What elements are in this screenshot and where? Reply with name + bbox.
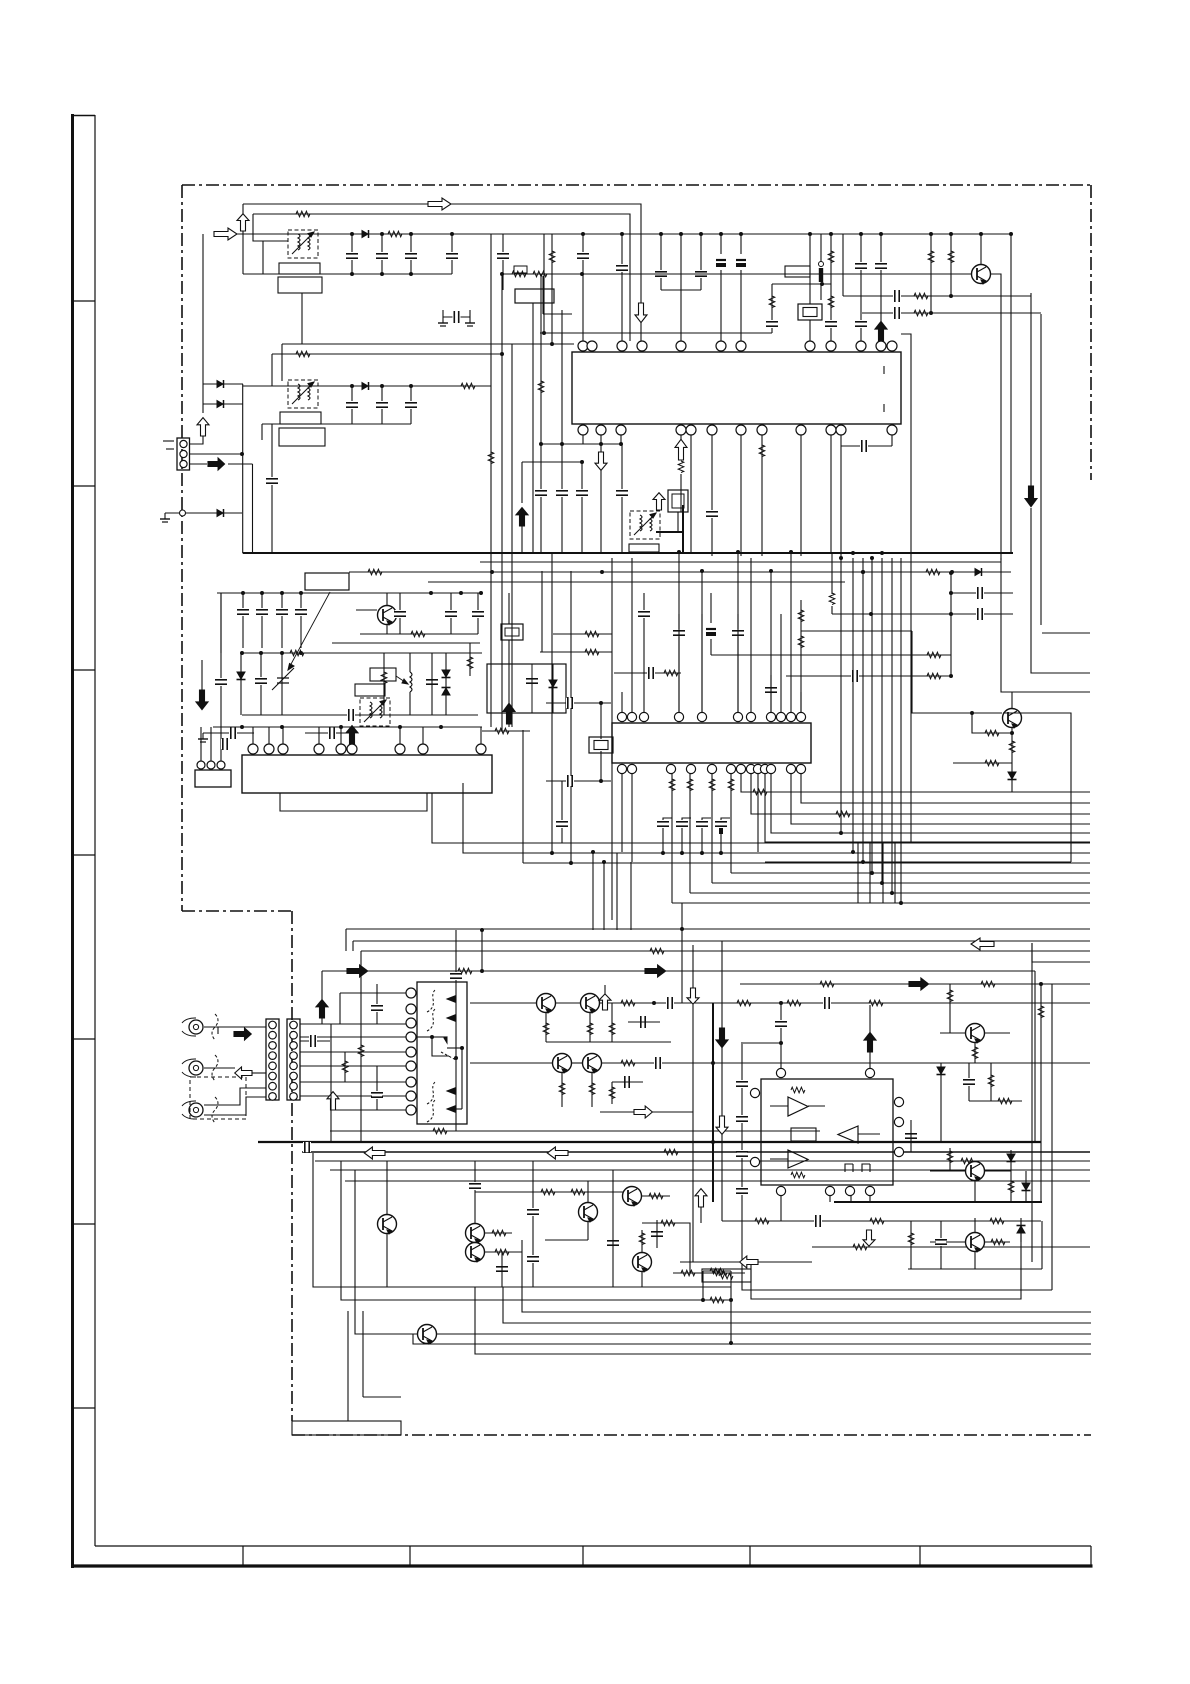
capacitor: [976, 608, 984, 620]
signal arrow power down left: [196, 690, 208, 710]
ground: [465, 317, 475, 326]
wire Q2 collector: [386, 593, 388, 605]
wire cap column x432: [431, 653, 433, 715]
capacitor: [426, 678, 438, 686]
resistor: [543, 1023, 549, 1035]
signal arrow up into IC1: [516, 508, 528, 526]
capacitor: [295, 608, 307, 616]
wire caps row A leads: [242, 593, 244, 648]
capacitor: [450, 972, 462, 980]
resistor: [926, 569, 940, 575]
wire X2 lower: [600, 751, 602, 781]
transistor Q4: [537, 994, 556, 1014]
wire IC1 left entry lower: [543, 234, 545, 333]
resistor: [495, 728, 509, 734]
capacitor: [371, 1091, 383, 1099]
wire emitter row 1042: [546, 1041, 671, 1043]
wire x542: [541, 571, 543, 652]
capacitor: [229, 727, 237, 739]
wire x912 link: [911, 655, 913, 713]
wire routing loop outer: [742, 1200, 1052, 1290]
capacitor: [221, 738, 229, 750]
border thin bottom rule: [95, 1545, 1091, 1547]
wire Q5 emitter: [589, 1013, 591, 1042]
capacitor: [875, 262, 887, 270]
resistor: [381, 672, 387, 684]
signal arrow power down: [1025, 486, 1037, 507]
wire row 715: [242, 714, 478, 716]
diode: [975, 568, 982, 576]
resistor: [650, 948, 664, 954]
wire IC4 bottom leads: [780, 1196, 782, 1221]
wire left rows: [432, 793, 1090, 843]
resistor: [755, 1218, 769, 1224]
wire cap leads top group: [351, 234, 353, 274]
wire left vertical to connector: [202, 234, 204, 404]
capacitor: [905, 1132, 917, 1140]
ground: [160, 513, 170, 522]
logic gate marks: [845, 1164, 853, 1172]
wire exit row 633: [1042, 632, 1090, 634]
wire bottom top rows: [346, 928, 1090, 930]
wire CN2 leads: [200, 727, 202, 761]
diode: [442, 688, 451, 696]
capacitor: [814, 1215, 822, 1227]
wire row 653: [242, 652, 482, 654]
wire row 1247: [812, 1246, 1090, 1248]
wire IC4 feeds: [712, 1003, 714, 1202]
wire x533 column: [532, 1161, 534, 1287]
ceramic resonator: [589, 737, 613, 753]
wire long vertical x491: [490, 234, 492, 727]
capacitor: [496, 1265, 508, 1273]
signal arrow power up: [875, 321, 887, 341]
border tick 4: [72, 854, 95, 856]
resistor: [791, 1172, 805, 1178]
label box: [280, 412, 321, 424]
wire cap leads tuner2: [351, 386, 353, 424]
wire Q9 column: [474, 1161, 476, 1224]
resistor: [549, 251, 555, 263]
resistor: [589, 1083, 595, 1095]
transistor Q11: [579, 1203, 598, 1223]
wire RC line 2: [862, 312, 1041, 314]
signal arrow right hollow: [634, 1106, 652, 1118]
resistor: [947, 990, 953, 1002]
wire hot row thick 1: [258, 1141, 1041, 1143]
wire IC1 pin link: [841, 445, 892, 447]
resistor: [728, 779, 734, 791]
wire W8 cap return: [262, 423, 411, 425]
label box small: [514, 266, 527, 273]
page frame: [71, 114, 1093, 1568]
IC2 bottom pins: [617, 764, 626, 773]
capacitor: [237, 608, 249, 616]
wire left column feeds down: [592, 852, 594, 930]
resistor: [759, 445, 765, 457]
resistor: [621, 1000, 635, 1006]
wire bottom rows to edge: [522, 1240, 1091, 1312]
capacitor: [655, 270, 667, 278]
label box: [279, 263, 320, 274]
trimmer capacitor CT1: [277, 678, 289, 683]
wire long vertical x512: [511, 344, 513, 727]
resistor: [585, 649, 599, 655]
resistor: [853, 1244, 867, 1250]
signal arrow from J1: [234, 1028, 251, 1040]
wire IC4 left caps: [741, 1042, 743, 1200]
diode D3: [217, 400, 224, 408]
border thick bottom rule: [71, 1564, 1093, 1567]
capacitor: [497, 252, 509, 260]
wire resonator branch: [771, 284, 773, 333]
wire Q1 base row long: [502, 273, 972, 275]
resistor: [587, 1023, 593, 1035]
wire x612 vertical: [611, 558, 613, 920]
wire switch feeds: [300, 1023, 406, 1025]
capacitor: [766, 320, 778, 328]
wire IC3 pin leads: [252, 727, 254, 744]
wire long vertical x502: [501, 274, 503, 731]
label box: [355, 684, 385, 696]
wire routing loop inner: [751, 1221, 1021, 1299]
resistor: [998, 1098, 1012, 1104]
wire row 1181: [345, 1180, 1090, 1182]
capacitor: [215, 678, 227, 686]
capacitor: [695, 270, 707, 278]
signal arrow hollow down: [716, 1116, 728, 1134]
resistor: [713, 1270, 727, 1276]
signal arrow up from connector: [197, 418, 209, 436]
wire resonator leads: [809, 234, 811, 304]
label box: [278, 277, 322, 293]
resistor: [664, 670, 678, 676]
wire label box drop: [532, 303, 534, 553]
resistor: [836, 811, 850, 817]
transistor Q12: [623, 1187, 642, 1207]
resistor: [753, 789, 767, 795]
signal arrow up: [316, 1000, 328, 1018]
wire x221 column: [220, 593, 222, 727]
signal arrow up: [653, 493, 665, 510]
wire label drop: [301, 293, 303, 344]
resistor: [769, 296, 775, 308]
capacitor: [328, 727, 336, 739]
transistor Q3: [1003, 709, 1022, 729]
capacitor: [446, 252, 458, 260]
wire left columns down: [330, 1024, 332, 1142]
IC IC1: [572, 352, 901, 424]
wire W5 drop: [281, 344, 283, 381]
resistor: [358, 1045, 364, 1057]
transistor Q10: [466, 1243, 485, 1263]
SAW filter: [501, 624, 523, 640]
resistor: [828, 296, 834, 308]
transistor Q9: [466, 1224, 485, 1244]
capacitor: [639, 1016, 647, 1028]
wire Q4 emitter: [545, 1013, 547, 1042]
signal arrow left: [547, 1147, 568, 1159]
signal arrow hollow down: [863, 1230, 875, 1246]
op-amp U3: [788, 1150, 808, 1168]
resistor: [609, 1087, 615, 1099]
wire coil column: [409, 653, 411, 672]
wire IC4 bottom row 1221: [722, 1220, 1041, 1222]
resistor: [972, 1047, 978, 1059]
jack J3: [182, 1101, 203, 1119]
wire x832 stub: [831, 552, 833, 594]
wire staircase joins: [681, 903, 683, 1003]
resistor: [869, 1000, 883, 1006]
border tick 3: [72, 669, 95, 671]
resistor: [296, 351, 310, 357]
resistor: [492, 1230, 506, 1236]
signal arrow to J2: [235, 1067, 252, 1079]
wire tuner2 stub: [261, 424, 263, 440]
wire Q3 lower res: [953, 762, 1012, 764]
wire Q3 collector: [1011, 692, 1013, 708]
wire W2: [253, 214, 630, 341]
capacitor: [566, 775, 574, 787]
shield box left of IC2: [487, 664, 566, 713]
wire long vertical x1041: [1040, 314, 1042, 625]
wire diode ladder top: [203, 383, 243, 385]
capacitor: [736, 1150, 748, 1158]
wire pin758 drop: [757, 774, 759, 852]
capacitor: [607, 1239, 619, 1247]
IC2 top pins: [617, 712, 626, 721]
transistor Q14: [418, 1325, 437, 1345]
diode: [1022, 1183, 1031, 1191]
switch centre mech: [430, 1035, 434, 1039]
resistor: [681, 1270, 695, 1276]
signal arrow feed: [208, 458, 225, 470]
wire column 562 upper: [561, 310, 563, 444]
resistor: [990, 1218, 1004, 1224]
capacitor: [963, 1078, 975, 1086]
wire pin781 feed: [780, 1003, 782, 1068]
wire exit row 692: [1001, 558, 1090, 692]
label box left of IC1: [515, 289, 554, 303]
border tick 7: [72, 1407, 95, 1409]
wire row 676: [786, 675, 951, 677]
wire IC1 bottom step row 462: [522, 461, 582, 463]
capacitor: [696, 820, 708, 828]
border bottom tick 2: [409, 1546, 411, 1566]
resistor: [495, 1249, 509, 1255]
capacitor: [706, 510, 718, 518]
coil L1: [819, 262, 824, 283]
border bottom tick 5: [919, 1546, 921, 1566]
jack shield squiggles: [212, 1014, 218, 1040]
capacitor: [616, 489, 628, 497]
signal arrow left: [364, 1147, 385, 1159]
capacitor: [676, 820, 688, 828]
wire Q4 Q5 row: [470, 1002, 537, 1004]
wire Q3 loop right: [1003, 713, 1071, 862]
signal arrow into IC3: [346, 726, 358, 744]
resistor: [928, 251, 934, 263]
resistor: [991, 1239, 1005, 1245]
resistor: [458, 968, 472, 974]
resistor: [669, 779, 675, 791]
resistor: [988, 1075, 994, 1087]
wire 743 to 781 link: [743, 1042, 781, 1044]
wire x911 branch: [910, 1221, 912, 1269]
capacitor: [893, 290, 901, 302]
wire res drop 1: [930, 234, 932, 313]
connector CN1: [177, 438, 190, 470]
resistor: [388, 231, 402, 237]
wire Q15 cap branch: [968, 1063, 970, 1101]
wire Q3 loop row: [765, 861, 1071, 863]
shield boundary left: [181, 185, 183, 911]
wire row 634 res: [553, 633, 612, 635]
capacitor: [976, 587, 984, 599]
ceramic resonator: [798, 304, 822, 320]
wire res diode pair column: [383, 653, 385, 715]
IC4 internal wires: [770, 1105, 788, 1107]
wire x951: [950, 573, 952, 676]
capacitor: [566, 697, 574, 709]
resistor: [609, 1023, 615, 1035]
wire pin791 to row 824: [791, 774, 1090, 824]
resistor: [411, 631, 425, 637]
wire Q12 out: [642, 1223, 690, 1273]
capacitor: [765, 686, 777, 694]
wire pin801 to row 803: [801, 774, 1090, 803]
wire x1052 long: [1051, 984, 1053, 1290]
wire W1 top: [243, 204, 641, 341]
connector strip CN3: [266, 1019, 279, 1100]
transistor Q1: [972, 265, 991, 285]
wire Q11 leads: [587, 1181, 589, 1202]
resistor: [985, 730, 999, 736]
wire row 593: [217, 592, 482, 594]
wire long vertical x571: [570, 571, 572, 863]
SAW filter 2: [668, 490, 688, 512]
resistor: [961, 1158, 975, 1164]
wire row 962: [1032, 943, 1090, 962]
capacitor: [654, 1057, 662, 1069]
capacitor: [309, 1035, 317, 1047]
wire W5: [282, 343, 574, 345]
wire bottom feed verticals: [345, 929, 347, 951]
resistor: [467, 657, 473, 669]
capacitor: [346, 252, 358, 260]
wire lower left verticals: [347, 1311, 349, 1421]
capacitor: [851, 670, 859, 682]
resistor: [927, 673, 941, 679]
wire Q3 base: [911, 712, 1002, 714]
diode D2: [217, 380, 224, 388]
label box: [370, 668, 396, 681]
capacitor: [394, 610, 406, 618]
wire Q6 Q7 row: [470, 1062, 553, 1064]
wire pin771 to row 833: [771, 774, 1090, 833]
wire crystal X2 loop: [546, 702, 611, 704]
wire mid staircase: [313, 1153, 731, 1287]
capacitor: [825, 320, 837, 328]
wire row 1112 arrow: [600, 1111, 693, 1113]
capacitor: [405, 252, 417, 260]
wire IC1 bottom step row 444: [541, 443, 622, 445]
wire Q12 base res: [642, 1195, 670, 1197]
wire RC line 1: [843, 295, 1031, 297]
label box: [279, 428, 325, 446]
capacitor: [346, 401, 358, 409]
shield boundary right: [1090, 185, 1092, 480]
capacitor: [775, 1020, 787, 1028]
transistor Q13: [633, 1253, 652, 1273]
capacitor: [732, 629, 744, 637]
border bottom tick 3: [582, 1546, 584, 1566]
border tick 5: [72, 1038, 95, 1040]
resistor: [947, 1151, 953, 1163]
resistor: [559, 1083, 565, 1095]
wire coil stub: [820, 234, 822, 262]
wire under-IC2 cap jogs: [663, 818, 672, 853]
wire Q2 emitter: [386, 625, 388, 634]
resistor: [798, 636, 804, 648]
resistor: [621, 1060, 635, 1066]
wire x701: [700, 1207, 702, 1223]
IC4 pins: [776, 1068, 785, 1077]
wire row 1269: [908, 1268, 1042, 1270]
wire ground branch: [165, 512, 242, 514]
wire IC1 pin drops: [582, 435, 584, 444]
capacitor: [855, 320, 867, 328]
wire W6: [272, 353, 502, 355]
border top tick: [71, 115, 95, 117]
wire Q9 Q10 res: [484, 1232, 512, 1234]
connector strip CN4: [287, 1019, 300, 1100]
wire W6 drop: [271, 354, 273, 386]
wire strip cap: [300, 1040, 330, 1042]
capacitor: [647, 667, 655, 679]
IC3 top pins: [248, 744, 258, 754]
wire IC1 step feed arrow: [521, 462, 523, 503]
wire Q16 net: [930, 1170, 966, 1172]
wire Q1 emitter: [990, 274, 1001, 560]
capacitor: [638, 610, 650, 618]
signal arrow right: [909, 978, 929, 990]
signal arrow down to IC1 pin: [635, 303, 647, 323]
diode: [1017, 1226, 1026, 1234]
wire tuner4 thick link: [656, 531, 683, 533]
resistor: [649, 1193, 663, 1199]
resistor: [433, 1128, 447, 1134]
signal arrow hollow: [327, 1092, 339, 1110]
wire pin2 out: [190, 453, 242, 455]
capacitor: [623, 1076, 631, 1088]
wire pin765 to row 842: [765, 774, 1090, 842]
capacitor: [666, 997, 674, 1009]
resistor: [368, 569, 382, 575]
electrolytic above IC2: [710, 593, 712, 655]
wire x693 column: [692, 945, 694, 1262]
wire left cap row: [203, 732, 254, 734]
connector CN2: [195, 770, 231, 787]
border bottom right end: [1090, 1546, 1092, 1566]
border bottom tick 4: [749, 1546, 751, 1566]
wire long vertical x911: [901, 334, 911, 842]
border tick 2: [72, 485, 95, 487]
resistor: [687, 779, 693, 791]
resistor: [661, 1220, 675, 1226]
electrolytic capacitor: [736, 254, 746, 270]
IC1 pin1 mark: [883, 366, 885, 374]
